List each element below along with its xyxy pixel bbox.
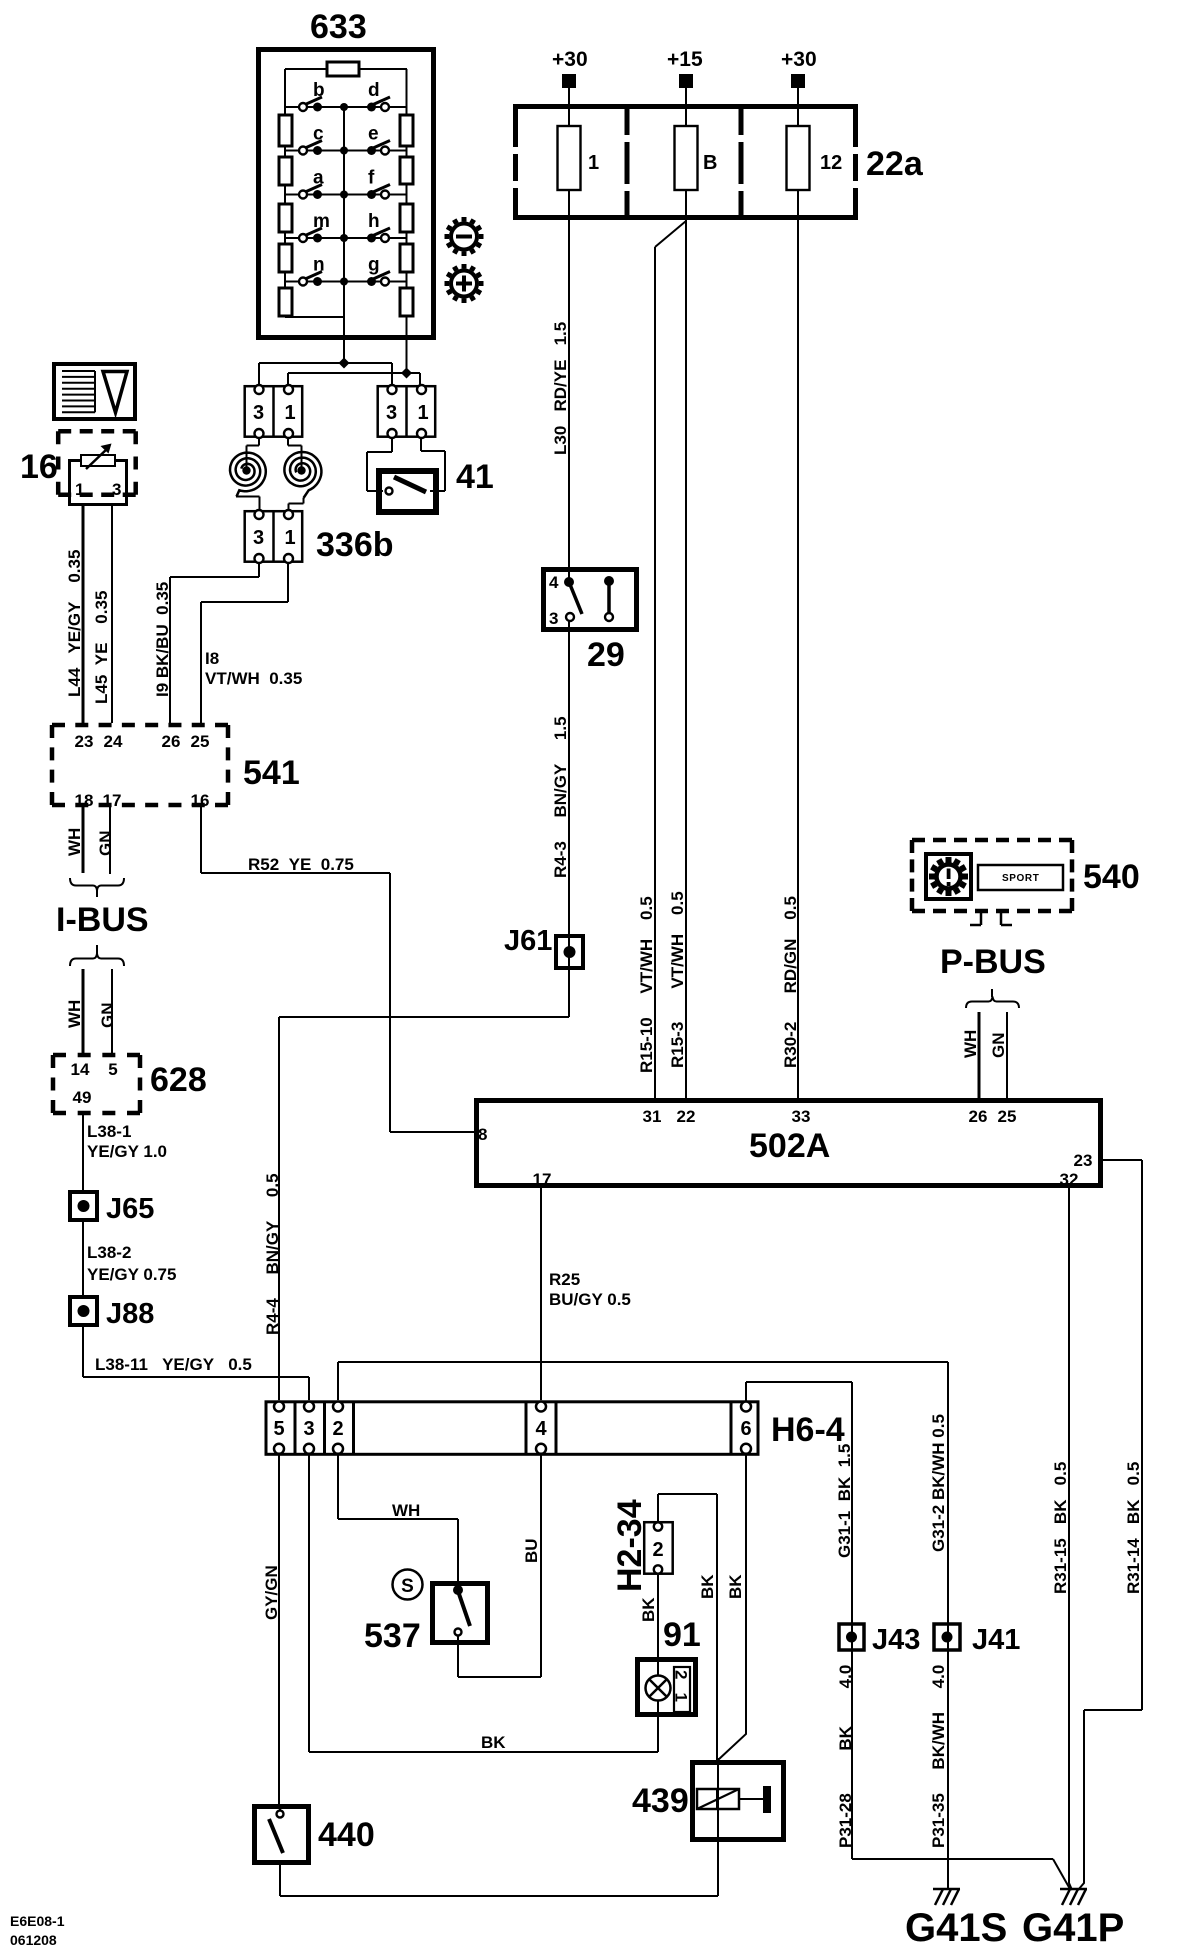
- svg-text:L44 YE/GY 0.35: L44 YE/GY 0.35: [65, 550, 84, 697]
- svg-text:BK: BK: [698, 1574, 717, 1599]
- svg-text:H2-34: H2-34: [611, 1499, 649, 1592]
- svg-text:YE/GY 1.0: YE/GY 1.0: [87, 1142, 167, 1161]
- svg-text:49: 49: [73, 1088, 92, 1107]
- svg-text:G41S: G41S: [905, 1906, 1007, 1950]
- svg-text:R31-14 BK 0.5: R31-14 BK 0.5: [1124, 1462, 1143, 1594]
- svg-text:336b: 336b: [316, 526, 394, 564]
- svg-text:23: 23: [1074, 1151, 1093, 1170]
- svg-text:L30 RD/YE 1.5: L30 RD/YE 1.5: [551, 322, 570, 455]
- svg-text:14: 14: [71, 1060, 90, 1079]
- svg-text:91: 91: [663, 1616, 701, 1654]
- svg-text:GN: GN: [98, 1003, 117, 1029]
- svg-text:29: 29: [587, 636, 625, 674]
- svg-text:YE/GY 0.75: YE/GY 0.75: [87, 1265, 176, 1284]
- svg-text:BK: BK: [639, 1597, 658, 1622]
- svg-text:540: 540: [1083, 858, 1140, 896]
- svg-text:26: 26: [162, 732, 181, 751]
- svg-text:2: 2: [652, 1539, 663, 1561]
- svg-text:GY/GN: GY/GN: [262, 1565, 281, 1620]
- svg-text:R30-2 RD/GN 0.5: R30-2 RD/GN 0.5: [781, 896, 800, 1068]
- svg-text:I9 BK/BU 0.35: I9 BK/BU 0.35: [153, 582, 172, 697]
- svg-text:23: 23: [75, 732, 94, 751]
- svg-text:3: 3: [386, 402, 397, 424]
- svg-text:L38-2: L38-2: [87, 1243, 131, 1262]
- svg-text:061208: 061208: [10, 1932, 57, 1948]
- svg-text:2: 2: [672, 1670, 691, 1679]
- svg-text:22a: 22a: [866, 145, 924, 183]
- svg-text:2: 2: [332, 1418, 343, 1440]
- svg-text:8: 8: [478, 1125, 487, 1144]
- svg-text:502A: 502A: [749, 1127, 830, 1165]
- svg-text:31: 31: [643, 1107, 662, 1126]
- svg-text:GN: GN: [989, 1033, 1008, 1059]
- svg-text:m: m: [313, 211, 330, 232]
- svg-text:L38-1: L38-1: [87, 1122, 131, 1141]
- svg-text:5: 5: [273, 1418, 284, 1440]
- svg-text:R15-10 VT/WH 0.5: R15-10 VT/WH 0.5: [637, 896, 656, 1073]
- svg-text:a: a: [313, 168, 324, 189]
- svg-text:22: 22: [677, 1107, 696, 1126]
- svg-text:R4-4 BN/GY 0.5: R4-4 BN/GY 0.5: [263, 1173, 282, 1335]
- svg-text:537: 537: [364, 1617, 421, 1655]
- svg-text:3: 3: [112, 480, 121, 499]
- svg-text:f: f: [368, 168, 375, 189]
- svg-text:c: c: [313, 124, 324, 145]
- svg-text:17: 17: [533, 1170, 552, 1189]
- svg-text:1: 1: [418, 402, 429, 424]
- svg-text:16: 16: [20, 448, 58, 486]
- svg-text:H6-4: H6-4: [771, 1411, 845, 1449]
- svg-text:I-BUS: I-BUS: [56, 901, 149, 939]
- svg-text:L45 YE 0.35: L45 YE 0.35: [92, 591, 111, 704]
- svg-text:G31-2 BK/WH 0.5: G31-2 BK/WH 0.5: [929, 1414, 948, 1552]
- svg-text:BU/GY 0.5: BU/GY 0.5: [549, 1290, 631, 1309]
- svg-text:GN: GN: [96, 831, 115, 857]
- svg-text:17: 17: [103, 791, 122, 810]
- svg-text:12: 12: [820, 152, 842, 174]
- svg-text:BK: BK: [481, 1733, 506, 1752]
- svg-text:R15-3 VT/WH 0.5: R15-3 VT/WH 0.5: [668, 891, 687, 1068]
- svg-text:P-BUS: P-BUS: [940, 943, 1046, 981]
- svg-text:J65: J65: [106, 1193, 154, 1225]
- svg-text:32: 32: [1060, 1170, 1079, 1189]
- svg-text:B: B: [703, 152, 717, 174]
- svg-text:E6E08-1: E6E08-1: [10, 1913, 65, 1929]
- svg-text:R4-3 BN/GY 1.5: R4-3 BN/GY 1.5: [551, 716, 570, 878]
- svg-text:633: 633: [310, 8, 367, 46]
- svg-text:440: 440: [318, 1816, 375, 1854]
- svg-text:BK: BK: [726, 1574, 745, 1599]
- svg-text:6: 6: [740, 1418, 751, 1440]
- svg-text:J43: J43: [872, 1624, 920, 1656]
- svg-text:1: 1: [285, 527, 296, 549]
- svg-text:WH: WH: [961, 1030, 980, 1058]
- svg-text:3: 3: [253, 527, 264, 549]
- svg-text:1: 1: [672, 1693, 691, 1702]
- svg-text:L38-11 YE/GY 0.5: L38-11 YE/GY 0.5: [95, 1355, 252, 1374]
- svg-text:24: 24: [104, 732, 123, 751]
- svg-text:I8: I8: [205, 649, 219, 668]
- svg-text:26: 26: [969, 1107, 988, 1126]
- svg-text:4: 4: [535, 1418, 547, 1440]
- svg-text:J41: J41: [972, 1624, 1020, 1656]
- svg-text:P31-35 BK/WH 4.0: P31-35 BK/WH 4.0: [929, 1665, 948, 1848]
- svg-text:SPORT: SPORT: [1002, 873, 1039, 884]
- svg-text:1: 1: [75, 480, 84, 499]
- svg-text:25: 25: [191, 732, 210, 751]
- svg-text:1: 1: [588, 152, 599, 174]
- svg-text:S: S: [401, 1576, 414, 1597]
- svg-text:3: 3: [549, 609, 558, 628]
- svg-text:+15: +15: [667, 48, 703, 71]
- svg-text:5: 5: [108, 1060, 117, 1079]
- svg-text:1: 1: [285, 402, 296, 424]
- svg-text:n: n: [313, 255, 325, 276]
- svg-text:541: 541: [243, 754, 300, 792]
- svg-text:e: e: [368, 124, 379, 145]
- svg-text:41: 41: [456, 458, 494, 496]
- svg-text:g: g: [368, 255, 380, 276]
- svg-text:G41P: G41P: [1022, 1906, 1124, 1950]
- svg-text:WH: WH: [65, 828, 84, 856]
- svg-text:R31-15 BK 0.5: R31-15 BK 0.5: [1051, 1462, 1070, 1594]
- svg-text:439: 439: [632, 1782, 689, 1820]
- svg-text:J88: J88: [106, 1298, 154, 1330]
- svg-text:R25: R25: [549, 1270, 580, 1289]
- svg-text:WH: WH: [392, 1501, 420, 1520]
- svg-text:628: 628: [150, 1061, 207, 1099]
- svg-text:3: 3: [303, 1418, 314, 1440]
- svg-text:4: 4: [549, 573, 559, 592]
- svg-text:3: 3: [253, 402, 264, 424]
- svg-text:+30: +30: [552, 48, 588, 71]
- svg-text:d: d: [368, 80, 380, 101]
- svg-text:J61: J61: [504, 925, 552, 957]
- svg-text:G31-1 BK 1.5: G31-1 BK 1.5: [835, 1444, 854, 1558]
- svg-text:BU: BU: [522, 1538, 541, 1563]
- svg-text:b: b: [313, 80, 325, 101]
- svg-text:VT/WH 0.35: VT/WH 0.35: [205, 669, 302, 688]
- svg-text:h: h: [368, 211, 380, 232]
- svg-text:+30: +30: [781, 48, 817, 71]
- svg-text:P31-28 BK 4.0: P31-28 BK 4.0: [836, 1665, 855, 1848]
- svg-text:33: 33: [792, 1107, 811, 1126]
- svg-text:WH: WH: [65, 1000, 84, 1028]
- svg-text:R52 YE 0.75: R52 YE 0.75: [248, 855, 354, 874]
- svg-text:25: 25: [998, 1107, 1017, 1126]
